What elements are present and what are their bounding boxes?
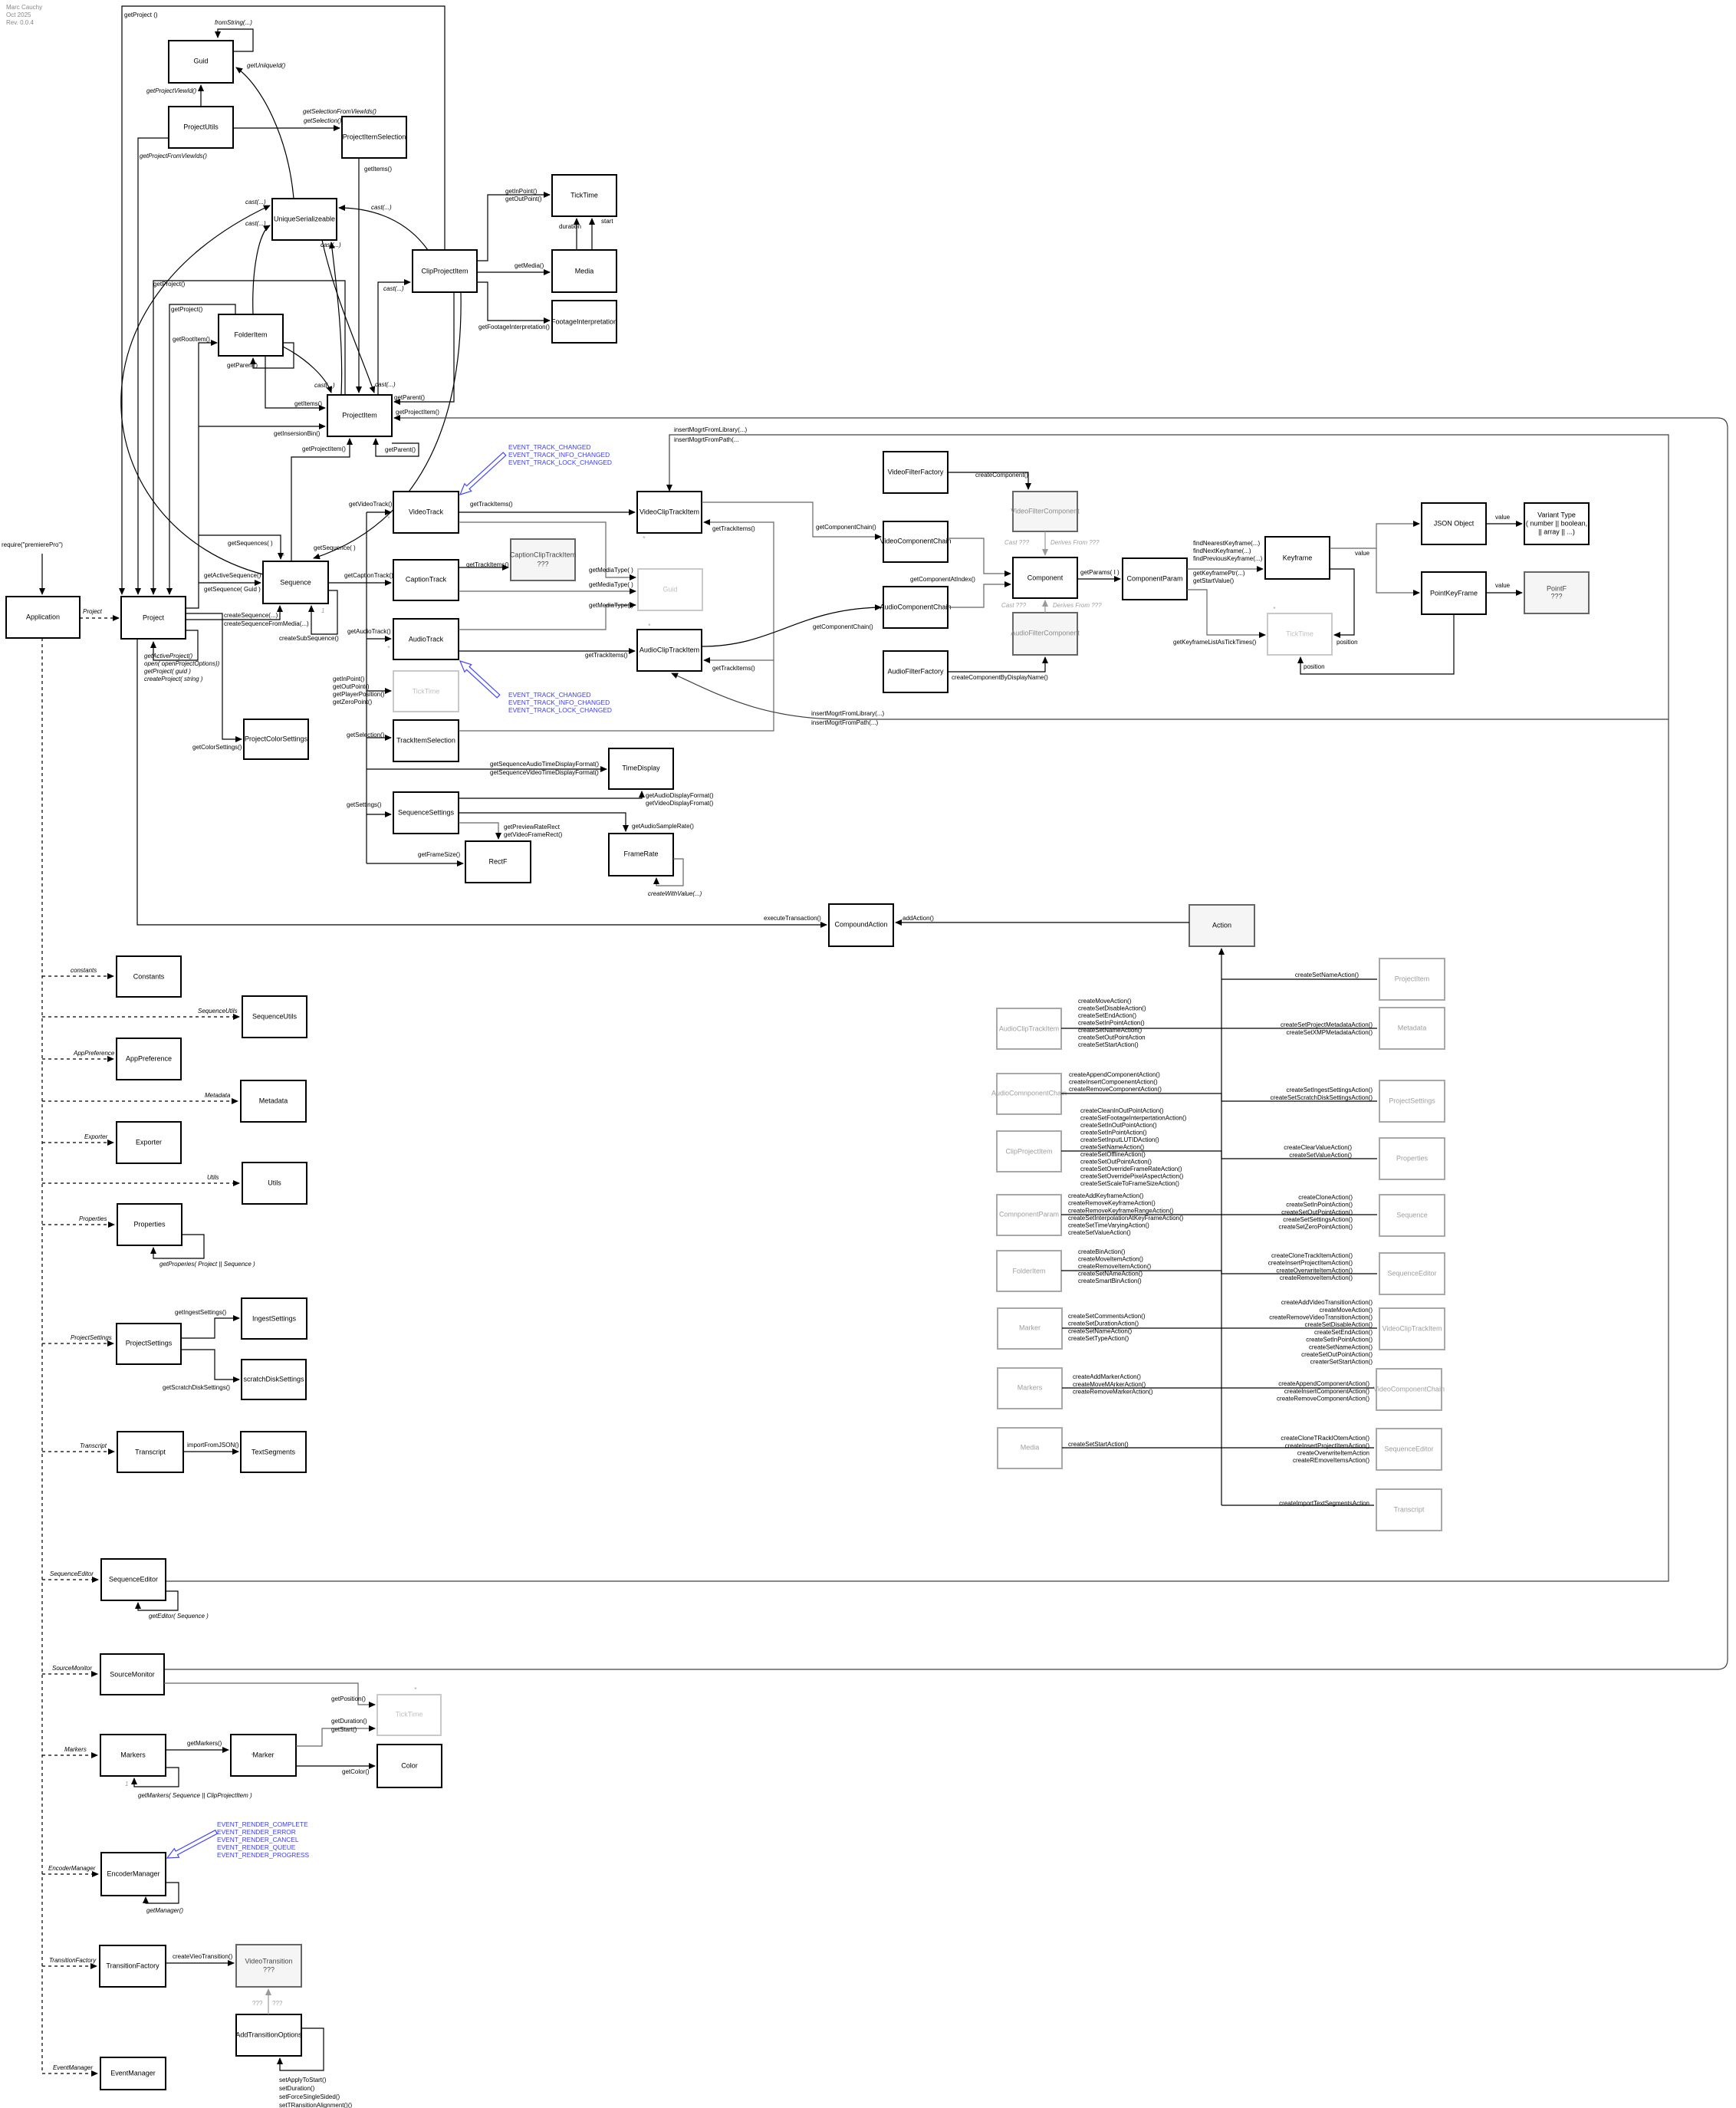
wire getAudioTrack Sequence to AudioTrack bbox=[367, 638, 391, 640]
wire getColor Marker to Color bbox=[296, 1765, 375, 1767]
svg-text:createSubSequence(): createSubSequence() bbox=[279, 635, 339, 642]
svg-text:AddTransitionOptions: AddTransitionOptions bbox=[235, 2031, 302, 2038]
TimeDisplay bbox=[609, 748, 673, 789]
svg-text:SequenceUtils: SequenceUtils bbox=[198, 1008, 238, 1015]
Sequence ghost (action target) bbox=[1379, 1195, 1445, 1236]
svg-text:getIngestSettings(): getIngestSettings() bbox=[175, 1309, 226, 1316]
FolderItem bbox=[219, 314, 283, 356]
svg-text:TickTime: TickTime bbox=[570, 191, 598, 199]
svg-text:getSelectionFromViewIds(): getSelectionFromViewIds() bbox=[303, 108, 376, 115]
Properties ghost (action target) bbox=[1379, 1138, 1445, 1179]
wire getMediaType AudioTrack to Guid ghost bbox=[459, 605, 636, 630]
svg-text:getInsersionBin(): getInsersionBin() bbox=[274, 430, 321, 437]
wire getActiveSequence Project to Sequence bbox=[199, 582, 261, 584]
svg-text:getSequence( Guid ): getSequence( Guid ) bbox=[204, 586, 261, 593]
ProjectItem ghost (action target) bbox=[1379, 959, 1445, 1000]
svg-text:getFootageInterpretation(): getFootageInterpretation() bbox=[478, 324, 550, 331]
svg-text:createRemoveVideoTransitionAct: createRemoveVideoTransitionAction() bbox=[1269, 1314, 1373, 1321]
svg-text:createREmoveItemsAction(): createREmoveItemsAction() bbox=[1293, 1457, 1369, 1464]
svg-text:findPreviousKeyframe(...): findPreviousKeyframe(...) bbox=[1193, 555, 1263, 562]
ProjectItemSelection bbox=[342, 117, 406, 158]
svg-text:fromString(...): fromString(...) bbox=[215, 19, 252, 26]
scratchDiskSettings bbox=[242, 1360, 306, 1399]
svg-text:getMediaType( ): getMediaType( ) bbox=[589, 602, 633, 609]
svg-text:createSetNameAction(): createSetNameAction() bbox=[1068, 1327, 1132, 1334]
svg-text:Metadata: Metadata bbox=[205, 1092, 231, 1099]
wire getTrackItems AudioTrack to AudioClipTrackItem bbox=[459, 650, 635, 652]
wire createVieoTransition TransitionFactory to VideoTransition bbox=[166, 1962, 234, 1964]
svg-text:createSetOverridePixelAspectAc: createSetOverridePixelAspectAction() bbox=[1080, 1173, 1184, 1180]
wire require to Application bbox=[41, 554, 43, 594]
svg-text:EncoderManager: EncoderManager bbox=[107, 1870, 159, 1877]
wire importFromJSON Transcript to TextSegments bbox=[183, 1451, 238, 1452]
svg-text:createSetFootageInterpertation: createSetFootageInterpertationAction() bbox=[1080, 1115, 1187, 1122]
wire getProjectFromViewIds ProjectUtils to Project bbox=[138, 138, 169, 594]
svg-text:getParams( I ): getParams( I ) bbox=[1080, 569, 1120, 576]
wire ComponentParam to Keyframe bbox=[1187, 568, 1263, 570]
svg-text:SequenceSettings: SequenceSettings bbox=[398, 808, 455, 816]
svg-text:JSON Object: JSON Object bbox=[1434, 519, 1475, 527]
svg-text:executeTransaction(): executeTransaction() bbox=[764, 915, 821, 922]
svg-text:createSetTypeAction(): createSetTypeAction() bbox=[1068, 1335, 1129, 1342]
svg-text:???: ??? bbox=[263, 1965, 275, 1973]
svg-text:createAppendComponentAction(): createAppendComponentAction() bbox=[1069, 1071, 1160, 1078]
svg-text:getPlayerPosition(): getPlayerPosition() bbox=[333, 691, 385, 698]
svg-text:ProjectItem: ProjectItem bbox=[342, 411, 377, 419]
wire value JSON Object to Variant Type bbox=[1486, 523, 1522, 525]
AppPreference bbox=[117, 1038, 181, 1080]
wire dashed to Properties bbox=[42, 1224, 114, 1225]
svg-text:createSetOutPointAction: createSetOutPointAction bbox=[1078, 1034, 1146, 1041]
svg-text:Project: Project bbox=[143, 613, 165, 621]
svg-text:SequenceUtils: SequenceUtils bbox=[252, 1012, 298, 1020]
svg-text:AudioClipTrackItem: AudioClipTrackItem bbox=[639, 646, 699, 653]
Markers ghost (action source) bbox=[998, 1368, 1062, 1409]
wire getMarkers Markers to Marker bbox=[166, 1749, 229, 1751]
wire getComponentChain AudioClipTrackItem to AudioComponentChain bbox=[702, 607, 881, 646]
svg-text:createSetDisableAction(): createSetDisableAction() bbox=[1305, 1321, 1373, 1328]
blue arrow to VideoTrack bbox=[460, 452, 506, 495]
svg-text:Transcript: Transcript bbox=[135, 1448, 166, 1455]
svg-text:getColor(): getColor() bbox=[342, 1768, 370, 1775]
svg-text:cast(...): cast(...) bbox=[321, 242, 341, 248]
svg-text:getMedia(): getMedia() bbox=[515, 262, 544, 269]
svg-text:Sequence: Sequence bbox=[280, 578, 311, 586]
svg-text:createSetOutPointAction(): createSetOutPointAction() bbox=[1301, 1351, 1373, 1358]
wire getIngestSettings ProjectSettings to IngestSettings bbox=[181, 1318, 239, 1338]
svg-text:Project: Project bbox=[83, 608, 103, 615]
svg-text:insertMogrtFromLibrary(...): insertMogrtFromLibrary(...) bbox=[674, 426, 747, 433]
Metadata bbox=[241, 1080, 306, 1122]
svg-text:start: start bbox=[601, 218, 613, 225]
svg-text:TickTime: TickTime bbox=[1286, 630, 1314, 637]
svg-text:constants: constants bbox=[71, 967, 97, 974]
wire executeTransaction Project to CompoundAction bbox=[137, 639, 827, 925]
svg-text:createRemoveItemAction(): createRemoveItemAction() bbox=[1280, 1274, 1353, 1281]
svg-text:getColorSettings(): getColorSettings() bbox=[192, 744, 242, 751]
svg-text:createInsertProjectItemAction(: createInsertProjectItemAction() bbox=[1268, 1260, 1353, 1267]
svg-text:getParent(): getParent() bbox=[227, 362, 258, 369]
wire Action spine bbox=[1221, 949, 1222, 1505]
svg-text:createSetEndAction(): createSetEndAction() bbox=[1314, 1329, 1373, 1336]
svg-text:createSetValueAction(): createSetValueAction() bbox=[1068, 1229, 1131, 1236]
svg-text:createWithValue(...): createWithValue(...) bbox=[648, 890, 702, 897]
svg-text:createMoveAction(): createMoveAction() bbox=[1078, 998, 1132, 1005]
wire getParent ClipProjectItem to ProjectItem bbox=[394, 292, 454, 402]
SequenceSettings bbox=[393, 792, 459, 834]
ProjectUtils bbox=[169, 107, 233, 148]
svg-text:createInsertComponentAction(): createInsertComponentAction() bbox=[1284, 1388, 1370, 1395]
Transcript bbox=[117, 1432, 183, 1472]
svg-text:createSetProjectMetadataAction: createSetProjectMetadataAction() bbox=[1281, 1021, 1373, 1028]
AudioComnponentChain ghost (action source) bbox=[991, 1074, 1067, 1114]
svg-text:getPreviewRateRect: getPreviewRateRect bbox=[504, 824, 561, 830]
svg-text:getParent(): getParent() bbox=[394, 394, 425, 401]
svg-text:createSetEndAction(): createSetEndAction() bbox=[1078, 1012, 1136, 1019]
svg-text:getProject(): getProject() bbox=[153, 281, 186, 288]
svg-text:CaptionClipTrackItem: CaptionClipTrackItem bbox=[510, 551, 576, 558]
svg-text:Rev. 0.0.4: Rev. 0.0.4 bbox=[6, 19, 34, 26]
svg-text:createAddKeyframeAction(): createAddKeyframeAction() bbox=[1068, 1192, 1144, 1199]
svg-text:getActiveProject(): getActiveProject() bbox=[144, 653, 192, 659]
wire getProject ProjectItem to Project bbox=[153, 281, 345, 594]
svg-text:createRemoveItemAction(): createRemoveItemAction() bbox=[1078, 1263, 1151, 1270]
svg-text:TransitionFactory: TransitionFactory bbox=[106, 1962, 159, 1969]
svg-text:VideoTrack: VideoTrack bbox=[409, 508, 444, 515]
svg-text:VideoFilterComponent: VideoFilterComponent bbox=[1011, 507, 1080, 515]
wire getMediaType VideoTrack to Guid ghost bbox=[459, 522, 636, 577]
wire position PointKeyFrame to TickTime ghost bbox=[1300, 614, 1454, 674]
svg-text:???: ??? bbox=[537, 560, 548, 567]
svg-text:value: value bbox=[1355, 550, 1370, 557]
svg-text:EVENT_TRACK_CHANGED: EVENT_TRACK_CHANGED bbox=[508, 691, 591, 699]
svg-text:createSequenceFromMedia(...): createSequenceFromMedia(...) bbox=[224, 620, 309, 627]
svg-text:getInPoint(): getInPoint() bbox=[505, 188, 538, 195]
svg-text:getDuration(): getDuration() bbox=[331, 1718, 367, 1725]
svg-text:IngestSettings: IngestSettings bbox=[252, 1314, 297, 1322]
svg-text:getComponentAtIndex(): getComponentAtIndex() bbox=[910, 576, 975, 583]
svg-text:Exporter: Exporter bbox=[84, 1133, 108, 1140]
svg-text:getVideoTrack(): getVideoTrack() bbox=[349, 501, 393, 508]
svg-text:createCloneTRackIOtemAction(): createCloneTRackIOtemAction() bbox=[1281, 1435, 1369, 1442]
wire createSequence Project to Sequence bbox=[186, 606, 280, 620]
svg-text:getProject( guid ): getProject( guid ) bbox=[144, 668, 191, 675]
wire value Keyframe to JSON Object bbox=[1330, 524, 1419, 548]
IngestSettings bbox=[242, 1298, 307, 1339]
Keyframe bbox=[1265, 537, 1330, 579]
svg-text:Properties: Properties bbox=[1396, 1154, 1429, 1162]
svg-text:getProject(): getProject() bbox=[171, 306, 203, 313]
wire AudioComnponentChain row to ProjectSettings ghost bbox=[1061, 1093, 1377, 1101]
wire createComponent VideoFilterFactory to VideoFilterComponent bbox=[948, 472, 1028, 489]
svg-text:getCaptionTrack(): getCaptionTrack() bbox=[344, 572, 393, 579]
wire getMarkers self-loop on Markers bbox=[134, 1768, 179, 1787]
svg-text:TickTime: TickTime bbox=[396, 1710, 423, 1718]
AudioFilterComponent bbox=[1011, 613, 1080, 655]
svg-text:CompoundAction: CompoundAction bbox=[834, 920, 887, 928]
svg-text:TextSegments: TextSegments bbox=[252, 1448, 296, 1455]
svg-text:Keyframe: Keyframe bbox=[1283, 554, 1313, 561]
wire value PointKeyFrame to PointF bbox=[1486, 592, 1522, 594]
svg-text:getSequenceAudioTimeDisplayFor: getSequenceAudioTimeDisplayFormat() bbox=[490, 761, 599, 768]
wire getSettings Sequence to SequenceSettings bbox=[367, 814, 391, 815]
wire VideoFilterComponent to Component bbox=[1044, 531, 1046, 555]
svg-text:createSetValueAction(): createSetValueAction() bbox=[1289, 1152, 1352, 1159]
svg-text:EVENT_RENDER_QUEUE: EVENT_RENDER_QUEUE bbox=[217, 1843, 296, 1851]
svg-text:RectF: RectF bbox=[488, 857, 508, 865]
wire dashed to Metadata bbox=[42, 1100, 238, 1102]
wire createSubSequence self-loop on Sequence bbox=[311, 590, 337, 634]
svg-text:createMoveMArkerAction(): createMoveMArkerAction() bbox=[1073, 1381, 1146, 1388]
Action bbox=[1189, 905, 1254, 946]
svg-text:ProjectItem: ProjectItem bbox=[1395, 975, 1430, 982]
svg-text:createSetOverrideFrameRateActi: createSetOverrideFrameRateAction() bbox=[1080, 1166, 1182, 1172]
svg-text:getPosition(): getPosition() bbox=[331, 1695, 366, 1702]
svg-text:open( openProjectOptions)): open( openProjectOptions)) bbox=[144, 660, 220, 667]
Marker bbox=[231, 1735, 296, 1776]
svg-text:getVideoDisplayFromat(): getVideoDisplayFromat() bbox=[646, 800, 714, 807]
FootageInterpretation bbox=[551, 301, 617, 343]
svg-text:createRemoveKeyframeRangeActio: createRemoveKeyframeRangeAction() bbox=[1068, 1207, 1174, 1214]
svg-text:createRemoveKeyframeAction(): createRemoveKeyframeAction() bbox=[1068, 1200, 1156, 1207]
svg-text:getAudioSampleRate(): getAudioSampleRate() bbox=[632, 823, 694, 830]
TickTime ghost (sequence) bbox=[393, 671, 459, 712]
wire dashed to EncoderManager bbox=[42, 1873, 98, 1875]
svg-text:cast(...): cast(...) bbox=[314, 382, 335, 389]
Guid bbox=[169, 41, 233, 83]
svg-text:getProjectViewId(): getProjectViewId() bbox=[146, 87, 197, 94]
wire Media row to SequenceEditor ghost 2 bbox=[1062, 1447, 1374, 1449]
Component bbox=[1013, 557, 1077, 598]
wire getDuration Marker to TickTime ghost bbox=[296, 1728, 375, 1746]
svg-text:createSetInPointAction(): createSetInPointAction() bbox=[1306, 1337, 1373, 1343]
TickTime ghost (keyframe) bbox=[1267, 613, 1332, 655]
Guid ghost bbox=[638, 569, 702, 610]
svg-text:createSetNameAction(): createSetNameAction() bbox=[1078, 1027, 1142, 1034]
blue arrow to EncoderManager bbox=[167, 1830, 217, 1858]
svg-text:VideoComponentChain: VideoComponentChain bbox=[880, 537, 952, 544]
svg-text:Exporter: Exporter bbox=[136, 1138, 162, 1146]
Markers bbox=[100, 1735, 166, 1776]
wire dashed Application to Project bbox=[80, 617, 119, 619]
SequenceEditor bbox=[101, 1559, 166, 1600]
svg-text:getOutPoint(): getOutPoint() bbox=[505, 196, 542, 202]
wire FolderItem row to SequenceEditor ghost bbox=[1061, 1271, 1377, 1274]
svg-text:require("premierePro"): require("premierePro") bbox=[2, 541, 63, 548]
wire setters self-loop on AddTransitionOptions bbox=[280, 2028, 324, 2070]
wire ClipProjectItem row to Properties ghost bbox=[1061, 1151, 1377, 1159]
svg-text:getTrackItems(): getTrackItems() bbox=[470, 501, 513, 508]
svg-text:duration: duration bbox=[559, 223, 581, 230]
svg-text:createAppendComponentAction(): createAppendComponentAction() bbox=[1278, 1380, 1369, 1387]
svg-text:setApplyToStart(): setApplyToStart() bbox=[279, 2077, 327, 2083]
svg-text:AudioComponentChain: AudioComponentChain bbox=[880, 603, 951, 610]
svg-text:Cast ???: Cast ??? bbox=[1001, 602, 1027, 609]
svg-text:Metadata: Metadata bbox=[259, 1097, 288, 1104]
svg-text:getScratchDiskSettings(): getScratchDiskSettings() bbox=[163, 1384, 230, 1391]
svg-text:createSetNameAction(): createSetNameAction() bbox=[1080, 1144, 1144, 1151]
wire dashed to Exporter bbox=[42, 1142, 113, 1143]
svg-text:createSetStartAction(): createSetStartAction() bbox=[1078, 1041, 1139, 1048]
svg-text:ProjectSettings: ProjectSettings bbox=[126, 1339, 173, 1347]
svg-text:createSetNameAction(): createSetNameAction() bbox=[1295, 972, 1359, 978]
svg-text:createSetNameAction(): createSetNameAction() bbox=[1309, 1343, 1373, 1350]
svg-text:getSequenceVideoTimeDisplayFor: getSequenceVideoTimeDisplayFormat() bbox=[490, 769, 599, 776]
svg-text:EventManager: EventManager bbox=[110, 2069, 156, 2077]
svg-text:getUniiqueId(): getUniiqueId() bbox=[247, 62, 286, 69]
wire dashed to TransitionFactory bbox=[42, 1965, 97, 1967]
svg-text:ComnponentParam: ComnponentParam bbox=[999, 1210, 1059, 1218]
VideoFilterFactory bbox=[883, 452, 948, 493]
VideoFilterComponent bbox=[1011, 492, 1080, 531]
wire getEditor self-loop on SequenceEditor bbox=[138, 1591, 178, 1610]
svg-text:EVENT_TRACK_INFO_CHANGED: EVENT_TRACK_INFO_CHANGED bbox=[508, 451, 610, 459]
Application bbox=[6, 597, 80, 638]
wire getSequenceTimeDisplayFormat Sequence to TimeDisplay bbox=[367, 768, 607, 770]
svg-text:cast(...): cast(...) bbox=[245, 220, 266, 227]
svg-text:Media: Media bbox=[1021, 1443, 1040, 1451]
svg-text:ClipProjectItem: ClipProjectItem bbox=[421, 267, 468, 275]
svg-text:TransitionFactory: TransitionFactory bbox=[49, 1957, 97, 1964]
svg-text:createSetZeroPointAction(): createSetZeroPointAction() bbox=[1279, 1224, 1353, 1231]
svg-text:createSmartBinAction(): createSmartBinAction() bbox=[1078, 1278, 1142, 1284]
svg-text:Component: Component bbox=[1027, 574, 1064, 581]
svg-text:cast(...): cast(...) bbox=[371, 204, 392, 211]
wire getAudioSampleRate SequenceSettings to FrameRate bbox=[459, 813, 626, 831]
svg-text:createSetSettingsAction(): createSetSettingsAction() bbox=[1283, 1216, 1353, 1223]
svg-text:EVENT_RENDER_COMPLETE: EVENT_RENDER_COMPLETE bbox=[217, 1820, 308, 1828]
svg-text:createrSetStartAction(): createrSetStartAction() bbox=[1310, 1359, 1373, 1366]
wire Action row to Transcript ghost bbox=[1221, 1505, 1374, 1506]
wire AudioFilterComponent to Component bbox=[1044, 600, 1046, 613]
svg-text:AudioTrack: AudioTrack bbox=[409, 635, 444, 643]
wire dashed to SourceMonitor bbox=[42, 1673, 97, 1675]
wire ComnponentParam row to Sequence ghost bbox=[1061, 1214, 1377, 1215]
svg-text:getItems(): getItems() bbox=[294, 400, 322, 407]
SequenceUtils bbox=[242, 996, 307, 1038]
wire getMediaType CaptionTrack to Guid ghost bbox=[459, 590, 636, 592]
ProjectSettings bbox=[117, 1324, 181, 1364]
svg-text:1: 1 bbox=[321, 607, 324, 614]
svg-text:FootageInterpretation: FootageInterpretation bbox=[551, 317, 617, 325]
ComponentParam bbox=[1123, 558, 1187, 600]
svg-text:getKeyframePtr(...): getKeyframePtr(...) bbox=[1193, 570, 1245, 577]
svg-text:???: ??? bbox=[1550, 592, 1562, 600]
wire createComponentByDisplayName AudioFilterFactory to AudioFilterComponent bbox=[948, 657, 1045, 672]
svg-text:SourceMonitor: SourceMonitor bbox=[52, 1665, 92, 1672]
wire fromString self-loop on Guid bbox=[218, 29, 253, 51]
svg-text:SequenceEditor: SequenceEditor bbox=[109, 1575, 158, 1583]
svg-text:getTrackItems(): getTrackItems() bbox=[466, 561, 509, 568]
wire getSequences Project to Sequence bbox=[199, 535, 281, 559]
svg-text:setTRansitionAlignment()(): setTRansitionAlignment()() bbox=[279, 2102, 352, 2108]
svg-text:SequenceEditor: SequenceEditor bbox=[1387, 1269, 1436, 1277]
wire Marker row to VideoClipTrackItem ghost bbox=[1062, 1327, 1377, 1329]
wire getKeyframeListAsTickTimes ComponentParam to TickTime ghost bbox=[1187, 590, 1265, 635]
svg-text:getRootItem(): getRootItem() bbox=[173, 336, 210, 343]
svg-text:Metadata: Metadata bbox=[1398, 1024, 1427, 1031]
wire cast FolderItem to ProjectItem bbox=[283, 347, 331, 393]
wire cast FolderItem to UniqueSerializeable bbox=[253, 225, 270, 314]
svg-text:EVENT_RENDER_PROGRESS: EVENT_RENDER_PROGRESS bbox=[217, 1851, 309, 1859]
Properties bbox=[117, 1204, 182, 1245]
wire Sequence spine vertical bbox=[366, 512, 367, 863]
svg-text:insertMogrtFromLibrary(...): insertMogrtFromLibrary(...) bbox=[811, 710, 884, 717]
svg-text:getItems(): getItems() bbox=[364, 166, 392, 173]
svg-text:Transcript: Transcript bbox=[80, 1442, 107, 1449]
wire getComponentAtIndex AudioComponentChain to Component bbox=[948, 584, 1011, 607]
svg-text:createInsertProjectItemAction(: createInsertProjectItemAction() bbox=[1285, 1442, 1370, 1449]
svg-text:getEditor( Sequence ): getEditor( Sequence ) bbox=[149, 1613, 209, 1620]
svg-text:createSequence(...): createSequence(...) bbox=[224, 612, 278, 619]
wire getUniqueId UniqueSerializeable to Guid bbox=[236, 67, 294, 199]
svg-text:Utils: Utils bbox=[207, 1174, 219, 1181]
wire getProject FolderItem to Project bbox=[169, 304, 235, 594]
svg-text:value: value bbox=[1495, 582, 1511, 589]
svg-text:createAddMarkerAction(): createAddMarkerAction() bbox=[1073, 1373, 1141, 1380]
svg-text:getInPoint(): getInPoint() bbox=[333, 676, 365, 682]
svg-text:createSetIngestSettingsAction(: createSetIngestSettingsAction() bbox=[1286, 1087, 1373, 1093]
svg-text:Utils: Utils bbox=[268, 1179, 281, 1186]
svg-text:AppPreference: AppPreference bbox=[73, 1050, 115, 1057]
wire dashed Application service spine bbox=[41, 638, 43, 2073]
wire createWithValue self-loop on FrameRate bbox=[656, 859, 683, 886]
svg-text:insertMogrtFromPath(...): insertMogrtFromPath(...) bbox=[811, 719, 878, 726]
svg-text:VideoClipTrackItem: VideoClipTrackItem bbox=[1382, 1324, 1442, 1332]
Utils bbox=[242, 1163, 307, 1204]
svg-text:createSetScaleToFrameSizeActio: createSetScaleToFrameSizeAction() bbox=[1080, 1180, 1179, 1187]
Transcript ghost (action target) bbox=[1376, 1489, 1442, 1531]
svg-text:createImportTextSegmentsAction: createImportTextSegmentsAction bbox=[1279, 1500, 1369, 1507]
Marker ghost (action source) bbox=[998, 1308, 1062, 1349]
svg-text:ProjectColorSettings: ProjectColorSettings bbox=[245, 735, 308, 742]
svg-text:getSelection(): getSelection() bbox=[347, 732, 385, 738]
wire getComponentChain VideoClipTrackItem to VideoComponentChain bbox=[702, 502, 881, 537]
svg-text:getStart(): getStart() bbox=[331, 1726, 357, 1733]
wire getPosition SourceMonitor to TickTime ghost bbox=[164, 1683, 375, 1705]
svg-text:createSetDisableAction(): createSetDisableAction() bbox=[1078, 1005, 1146, 1012]
svg-text:Markers: Markers bbox=[120, 1751, 146, 1758]
svg-text:AudioFilterComponent: AudioFilterComponent bbox=[1011, 629, 1080, 636]
wire dashed to Utils bbox=[42, 1182, 239, 1184]
SequenceEditor ghost (action target) bbox=[1376, 1429, 1442, 1470]
svg-text:VideoFilterFactory: VideoFilterFactory bbox=[888, 468, 944, 475]
svg-text:Guid: Guid bbox=[663, 585, 677, 593]
svg-text:createMoveAction(): createMoveAction() bbox=[1320, 1307, 1373, 1314]
svg-text:1: 1 bbox=[289, 581, 292, 588]
svg-text:Variant Type: Variant Type bbox=[1537, 511, 1576, 518]
svg-text:getSequence( ): getSequence( ) bbox=[314, 544, 356, 551]
svg-text:getActiveSequence(): getActiveSequence() bbox=[204, 572, 261, 579]
svg-text:createSetOutPointAction(): createSetOutPointAction() bbox=[1281, 1209, 1353, 1215]
svg-text:Sequence: Sequence bbox=[1396, 1211, 1428, 1218]
wire getAudioDisplayFormat SequenceSettings to TimeDisplay bbox=[459, 791, 642, 798]
wire value Keyframe to PointKeyFrame bbox=[1376, 548, 1419, 593]
wire AudioClipTrackItem row to Metadata ghost bbox=[1061, 1028, 1377, 1029]
wire getItems ProjectItemSelection to ProjectItem bbox=[358, 158, 360, 393]
svg-text:createComponentByDisplayName(): createComponentByDisplayName() bbox=[952, 674, 1048, 681]
svg-text:FrameRate: FrameRate bbox=[623, 850, 658, 857]
FrameRate bbox=[609, 834, 673, 876]
ProjectItem bbox=[327, 395, 392, 436]
svg-text:Media: Media bbox=[575, 267, 594, 275]
svg-text:createRemoveComponentAction(): createRemoveComponentAction() bbox=[1277, 1396, 1369, 1403]
TextSegments bbox=[241, 1432, 306, 1472]
svg-text:createBinAction(): createBinAction() bbox=[1078, 1248, 1126, 1255]
svg-text:createSetTimeVaryingAction(): createSetTimeVaryingAction() bbox=[1068, 1222, 1149, 1229]
svg-text:Marker: Marker bbox=[252, 1751, 274, 1758]
wire cast ProjectItem to UniqueSerializeable bbox=[331, 242, 342, 395]
